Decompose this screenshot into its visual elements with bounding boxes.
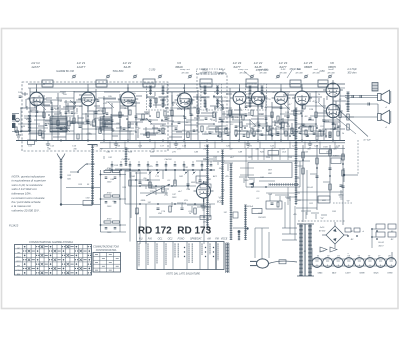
wire segment <box>79 94 92 96</box>
wire horizontal <box>300 133 326 135</box>
filament chain <box>310 258 394 260</box>
junction <box>43 83 45 85</box>
junction <box>294 130 296 132</box>
wire stub <box>120 126 122 130</box>
wire vertical <box>119 94 121 141</box>
wire V4b anode rise <box>257 84 259 91</box>
wire stub <box>240 114 242 118</box>
wire stub <box>136 122 138 126</box>
switch dot <box>156 169 158 171</box>
band to rail stubs <box>109 142 111 149</box>
junction <box>323 130 325 132</box>
wire stub <box>215 113 217 122</box>
wire horizontal <box>96 107 112 109</box>
mid seg <box>187 204 203 206</box>
wire horizontal <box>280 113 302 115</box>
wire V3 anode rise <box>184 84 186 93</box>
resistor <box>187 132 189 138</box>
tube label 6AJ8 at x=127 <box>123 61 132 69</box>
junction <box>271 115 273 117</box>
tube label 6BM8 at x=308 <box>304 61 313 69</box>
wire vertical <box>190 99 192 141</box>
junction <box>332 83 334 85</box>
resistor <box>39 130 41 136</box>
wire segment <box>143 134 156 136</box>
tube label 12AT7 at x=35.5 <box>31 61 40 69</box>
switch dot <box>192 169 194 171</box>
wire V1a cathode drop <box>36 106 38 141</box>
tone bottom wire <box>125 203 215 205</box>
riser wires <box>299 161 301 187</box>
wire vertical <box>221 97 223 141</box>
band cap <box>306 134 309 136</box>
wire segment <box>259 134 272 136</box>
svg-text:GAMME BC-OM: GAMME BC-OM <box>56 70 74 73</box>
junction <box>165 107 167 109</box>
wire V2 cathode drop <box>127 106 129 140</box>
svg-text:2M: 2M <box>171 102 175 104</box>
wire stub <box>59 105 61 114</box>
wire vertical <box>229 88 231 141</box>
wire horizontal <box>120 105 136 107</box>
resistor <box>321 131 323 136</box>
wire horizontal <box>322 119 340 121</box>
wire horizontal <box>118 99 136 101</box>
svg-text:CONTROPIASTRA: CONTROPIASTRA <box>96 249 117 252</box>
wire segment <box>266 129 272 131</box>
wire horizontal <box>30 101 52 103</box>
mid seg <box>239 176 247 178</box>
svg-text:4.7 kpF: 4.7 kpF <box>363 139 371 142</box>
junction <box>334 127 336 129</box>
resistor <box>119 112 121 118</box>
IF coil pair <box>261 86 263 95</box>
capacitor <box>190 113 193 115</box>
IF coil pair <box>150 86 152 95</box>
ground stub left <box>18 132 20 136</box>
svg-text:AM: AM <box>16 273 20 276</box>
wire segment <box>250 97 256 99</box>
capacitor <box>111 119 114 121</box>
wire stub <box>274 120 276 124</box>
junction <box>95 83 97 85</box>
resistor <box>147 132 149 138</box>
wire horizontal <box>310 115 330 117</box>
tone wire 180 <box>131 179 160 181</box>
mid stub <box>119 170 121 177</box>
wire horizontal <box>278 119 296 121</box>
svg-text:47k 300: 47k 300 <box>199 71 207 74</box>
capacitor <box>319 129 322 131</box>
capacitor <box>227 133 230 135</box>
wire stub <box>291 123 293 132</box>
tone res 2M2 <box>200 216 211 220</box>
tube V5b <box>292 88 312 109</box>
switch dot <box>201 169 203 171</box>
wire stub <box>60 112 62 116</box>
mid stub <box>207 160 209 165</box>
resistor <box>219 132 221 137</box>
resistor <box>291 128 293 134</box>
chassis bus upper <box>16 140 345 142</box>
svg-text:FONO: FONO <box>178 239 185 241</box>
coupling caps on output lines <box>351 95 353 98</box>
wire stub <box>145 127 147 136</box>
wire horizontal <box>116 127 134 129</box>
tone table <box>93 253 121 273</box>
wire horizontal <box>140 133 166 135</box>
band cap <box>158 128 161 130</box>
wire horizontal <box>295 123 316 125</box>
junction <box>159 130 161 132</box>
svg-text:1M: 1M <box>251 129 254 131</box>
junction <box>73 107 75 109</box>
svg-text:2x15: 2x15 <box>319 227 325 229</box>
V8 ground <box>203 198 205 206</box>
wire segment <box>87 110 100 112</box>
mid stub <box>191 206 193 213</box>
svg-text:C41: C41 <box>108 156 112 159</box>
wire stub <box>266 122 268 126</box>
wire stub <box>86 120 88 124</box>
svg-text:C41: C41 <box>184 166 188 169</box>
tube V6 <box>323 80 343 101</box>
switch dot <box>111 169 113 171</box>
wire V6 anode rise <box>332 82 334 85</box>
svg-text:OM: OM <box>17 252 21 254</box>
keyboard table <box>137 242 224 270</box>
svg-text:270: 270 <box>171 152 176 154</box>
svg-text:C44 50: C44 50 <box>164 158 172 161</box>
wire stub <box>129 131 131 140</box>
callout diagonal 2 <box>334 116 356 134</box>
wire stub <box>24 92 26 96</box>
wire stub <box>162 130 164 134</box>
band cap <box>71 111 74 113</box>
band dot <box>161 119 163 121</box>
junction <box>235 135 237 137</box>
wire segment <box>169 136 182 138</box>
band dot <box>135 131 137 133</box>
trimmer <box>305 75 308 78</box>
tone mid dots <box>139 203 141 205</box>
resistor <box>57 120 59 126</box>
svg-text:47k 300: 47k 300 <box>279 71 287 74</box>
stubs above caps <box>111 161 113 164</box>
wire vertical <box>111 103 113 141</box>
capacitor <box>261 133 264 135</box>
wire segment <box>127 102 140 104</box>
junction <box>298 127 300 129</box>
junction <box>253 135 255 137</box>
svg-text:47k 300: 47k 300 <box>259 71 267 74</box>
capacitor <box>60 127 63 129</box>
svg-text:mod. FM: mod. FM <box>259 69 268 71</box>
input parts <box>15 127 17 132</box>
junction <box>279 123 281 125</box>
mid seg <box>177 202 183 204</box>
speaker SP2 <box>378 114 382 121</box>
capacitor <box>175 127 178 129</box>
wire vertical <box>197 90 199 141</box>
svg-text:RADD.: RADD. <box>333 155 340 158</box>
wire segment <box>177 108 190 110</box>
wire horizontal <box>30 127 48 129</box>
resistor <box>251 110 253 116</box>
wire stub <box>223 111 225 120</box>
small trimmer row <box>71 121 74 123</box>
svg-text:FM: FM <box>215 239 218 241</box>
junction <box>301 115 303 117</box>
wire segment <box>258 113 264 115</box>
wire horizontal <box>246 123 266 125</box>
psu cap gnd <box>340 184 343 186</box>
band res <box>329 132 331 137</box>
input jack dark marks <box>12 115 15 121</box>
dial ladder C <box>245 205 247 240</box>
diagonal lead <box>64 126 70 132</box>
wire segment <box>209 128 222 130</box>
wire segment <box>54 113 60 115</box>
wire stub <box>317 131 319 140</box>
junction <box>289 83 291 85</box>
tube V5a <box>272 89 291 109</box>
wire stub <box>172 102 174 106</box>
wire segment <box>333 100 346 102</box>
cluster rect <box>266 201 282 209</box>
junction <box>262 127 264 129</box>
band res <box>103 122 105 127</box>
IF can T2 <box>200 79 212 87</box>
wire segment <box>30 109 36 111</box>
IF can dashed <box>147 84 168 110</box>
svg-text:220: 220 <box>321 200 326 202</box>
band cap <box>280 106 283 108</box>
IF coil pair <box>162 86 164 95</box>
AC plug <box>257 259 269 268</box>
tube V1b <box>78 89 98 110</box>
wire horizontal <box>66 105 82 107</box>
tube V3 <box>175 90 195 111</box>
tone res 680k <box>200 184 211 188</box>
output line pair 1 <box>345 95 378 97</box>
svg-text:12AT7: 12AT7 <box>77 65 86 69</box>
svg-text:50+50: 50+50 <box>307 187 314 189</box>
trimmer <box>73 75 76 78</box>
tone box <box>196 176 208 183</box>
junction <box>280 127 282 129</box>
tube V1a <box>27 89 47 110</box>
wire vertical <box>95 89 97 141</box>
wire segment <box>341 116 354 118</box>
mid seg <box>301 210 311 212</box>
mid seg <box>321 214 327 216</box>
wire V7 anode rise <box>332 84 334 104</box>
wire stub <box>67 103 69 112</box>
junction <box>119 115 121 117</box>
wire segment <box>225 116 238 118</box>
band drops right <box>245 148 247 160</box>
resistor <box>333 124 335 130</box>
dial ladder E <box>295 108 297 205</box>
wire segment <box>86 133 92 135</box>
mid seg <box>275 194 289 196</box>
mains transformer <box>300 224 302 276</box>
svg-text:SPREGIAT.: SPREGIAT. <box>190 238 202 241</box>
band res <box>303 104 305 109</box>
bus risers <box>111 163 113 170</box>
wire horizontal <box>238 130 262 132</box>
dashed shield box converter <box>197 74 227 132</box>
svg-text:finale: finale <box>328 69 334 71</box>
capacitor <box>258 123 261 125</box>
wire horizontal <box>52 115 74 117</box>
band res <box>190 99 192 104</box>
wire horizontal <box>186 119 204 121</box>
svg-text:AM: AM <box>206 238 211 241</box>
svg-text:C61: C61 <box>309 203 313 205</box>
resistor <box>247 132 249 138</box>
wire vertical <box>265 95 267 141</box>
svg-text:COMMUTAZIONE GAMME D'ONDA: COMMUTAZIONE GAMME D'ONDA <box>29 240 73 244</box>
wire vertical <box>323 98 325 141</box>
wire segment <box>62 129 68 131</box>
wire segment <box>226 93 232 95</box>
mid stub <box>227 164 229 171</box>
wire stub <box>154 92 156 96</box>
wire horizontal <box>74 91 96 93</box>
cord drop wires <box>254 228 256 258</box>
transformer feed drops <box>284 202 286 228</box>
feedback loop rect <box>248 163 292 178</box>
wire segment <box>94 105 100 107</box>
trimmer <box>277 75 280 78</box>
IF coil pair <box>217 86 219 95</box>
resistor <box>201 126 203 132</box>
dial ladder A <box>207 145 209 230</box>
wire horizontal <box>324 121 340 123</box>
wire vertical <box>287 93 289 141</box>
wire segment <box>308 119 314 121</box>
mid seg <box>203 158 217 160</box>
wire vertical <box>65 100 67 141</box>
psu dashed 13 <box>333 202 352 204</box>
band dot <box>187 107 189 109</box>
wire horizontal <box>206 128 230 130</box>
switch dot <box>165 169 167 171</box>
top bus wire <box>28 83 345 85</box>
wire horizontal <box>82 128 104 130</box>
mid stub <box>165 190 167 195</box>
IF can L1 <box>42 80 53 87</box>
transformer top leads <box>282 227 297 229</box>
svg-text:1M: 1M <box>275 126 278 128</box>
wire segment <box>153 104 166 106</box>
wire stub <box>34 104 36 108</box>
junction <box>51 123 53 125</box>
svg-text:OC: OC <box>17 248 21 250</box>
band cap <box>271 133 274 135</box>
wire segment <box>29 132 42 134</box>
capacitor <box>257 129 260 131</box>
dial ladder B <box>230 164 232 240</box>
psu caps <box>316 175 319 177</box>
mola box <box>252 209 262 214</box>
wire segment <box>234 109 240 111</box>
wire stub <box>179 93 181 102</box>
capacitor <box>243 134 246 136</box>
tone caps <box>139 181 142 183</box>
bank spine <box>100 170 102 232</box>
svg-text:6,3 V: 6,3 V <box>320 251 325 253</box>
svg-text:4700: 4700 <box>177 94 183 97</box>
svg-text:47k 300: 47k 300 <box>295 71 303 74</box>
band cap <box>245 105 248 107</box>
wire segment <box>292 131 298 133</box>
wire segment <box>160 99 166 101</box>
wire stub <box>248 112 250 116</box>
antenna input coil <box>29 116 31 133</box>
psu extra <box>342 154 344 160</box>
wire segment <box>284 115 290 117</box>
wire segment <box>111 114 124 116</box>
wire horizontal <box>330 128 345 130</box>
svg-text:VISTO DAL LATO SALDATURE: VISTO DAL LATO SALDATURE <box>166 273 200 276</box>
mid seg <box>259 180 275 182</box>
wire segment <box>45 120 58 122</box>
ladder2 <box>125 148 127 166</box>
tube V2 <box>118 89 138 110</box>
wire segment <box>235 130 248 132</box>
junction <box>197 115 199 117</box>
dial ladder A2 <box>222 150 224 205</box>
mid stub <box>145 186 147 189</box>
capacitor <box>95 111 98 113</box>
capacitor <box>299 131 302 133</box>
resistor <box>99 128 101 134</box>
junction <box>199 83 201 85</box>
wire horizontal <box>112 115 128 117</box>
output line pair 2 <box>345 103 378 105</box>
wire segment <box>63 106 76 108</box>
mid seg <box>285 196 297 198</box>
wire stub <box>153 125 155 134</box>
band dot <box>300 112 302 114</box>
band cap <box>36 110 39 112</box>
wire stub <box>85 113 87 122</box>
osc coil block <box>100 117 112 130</box>
caps above bus <box>111 164 114 166</box>
band res <box>68 121 70 126</box>
switch dot <box>210 169 212 171</box>
junction <box>271 135 273 137</box>
second top wire <box>28 87 345 89</box>
svg-text:6BM8: 6BM8 <box>304 65 312 69</box>
wire segment <box>145 132 158 134</box>
wire V5a anode rise <box>280 84 282 92</box>
mid stub <box>155 188 157 195</box>
tube V4a <box>230 89 249 109</box>
wire horizontal <box>232 119 250 121</box>
junction <box>103 115 105 117</box>
wire V4a anode rise <box>239 84 241 92</box>
wire stub <box>180 100 182 104</box>
resistor <box>240 122 242 128</box>
wire horizontal <box>306 91 326 93</box>
wire segment <box>37 104 50 106</box>
pilot arrows <box>320 247 327 252</box>
wire horizontal <box>270 128 295 130</box>
